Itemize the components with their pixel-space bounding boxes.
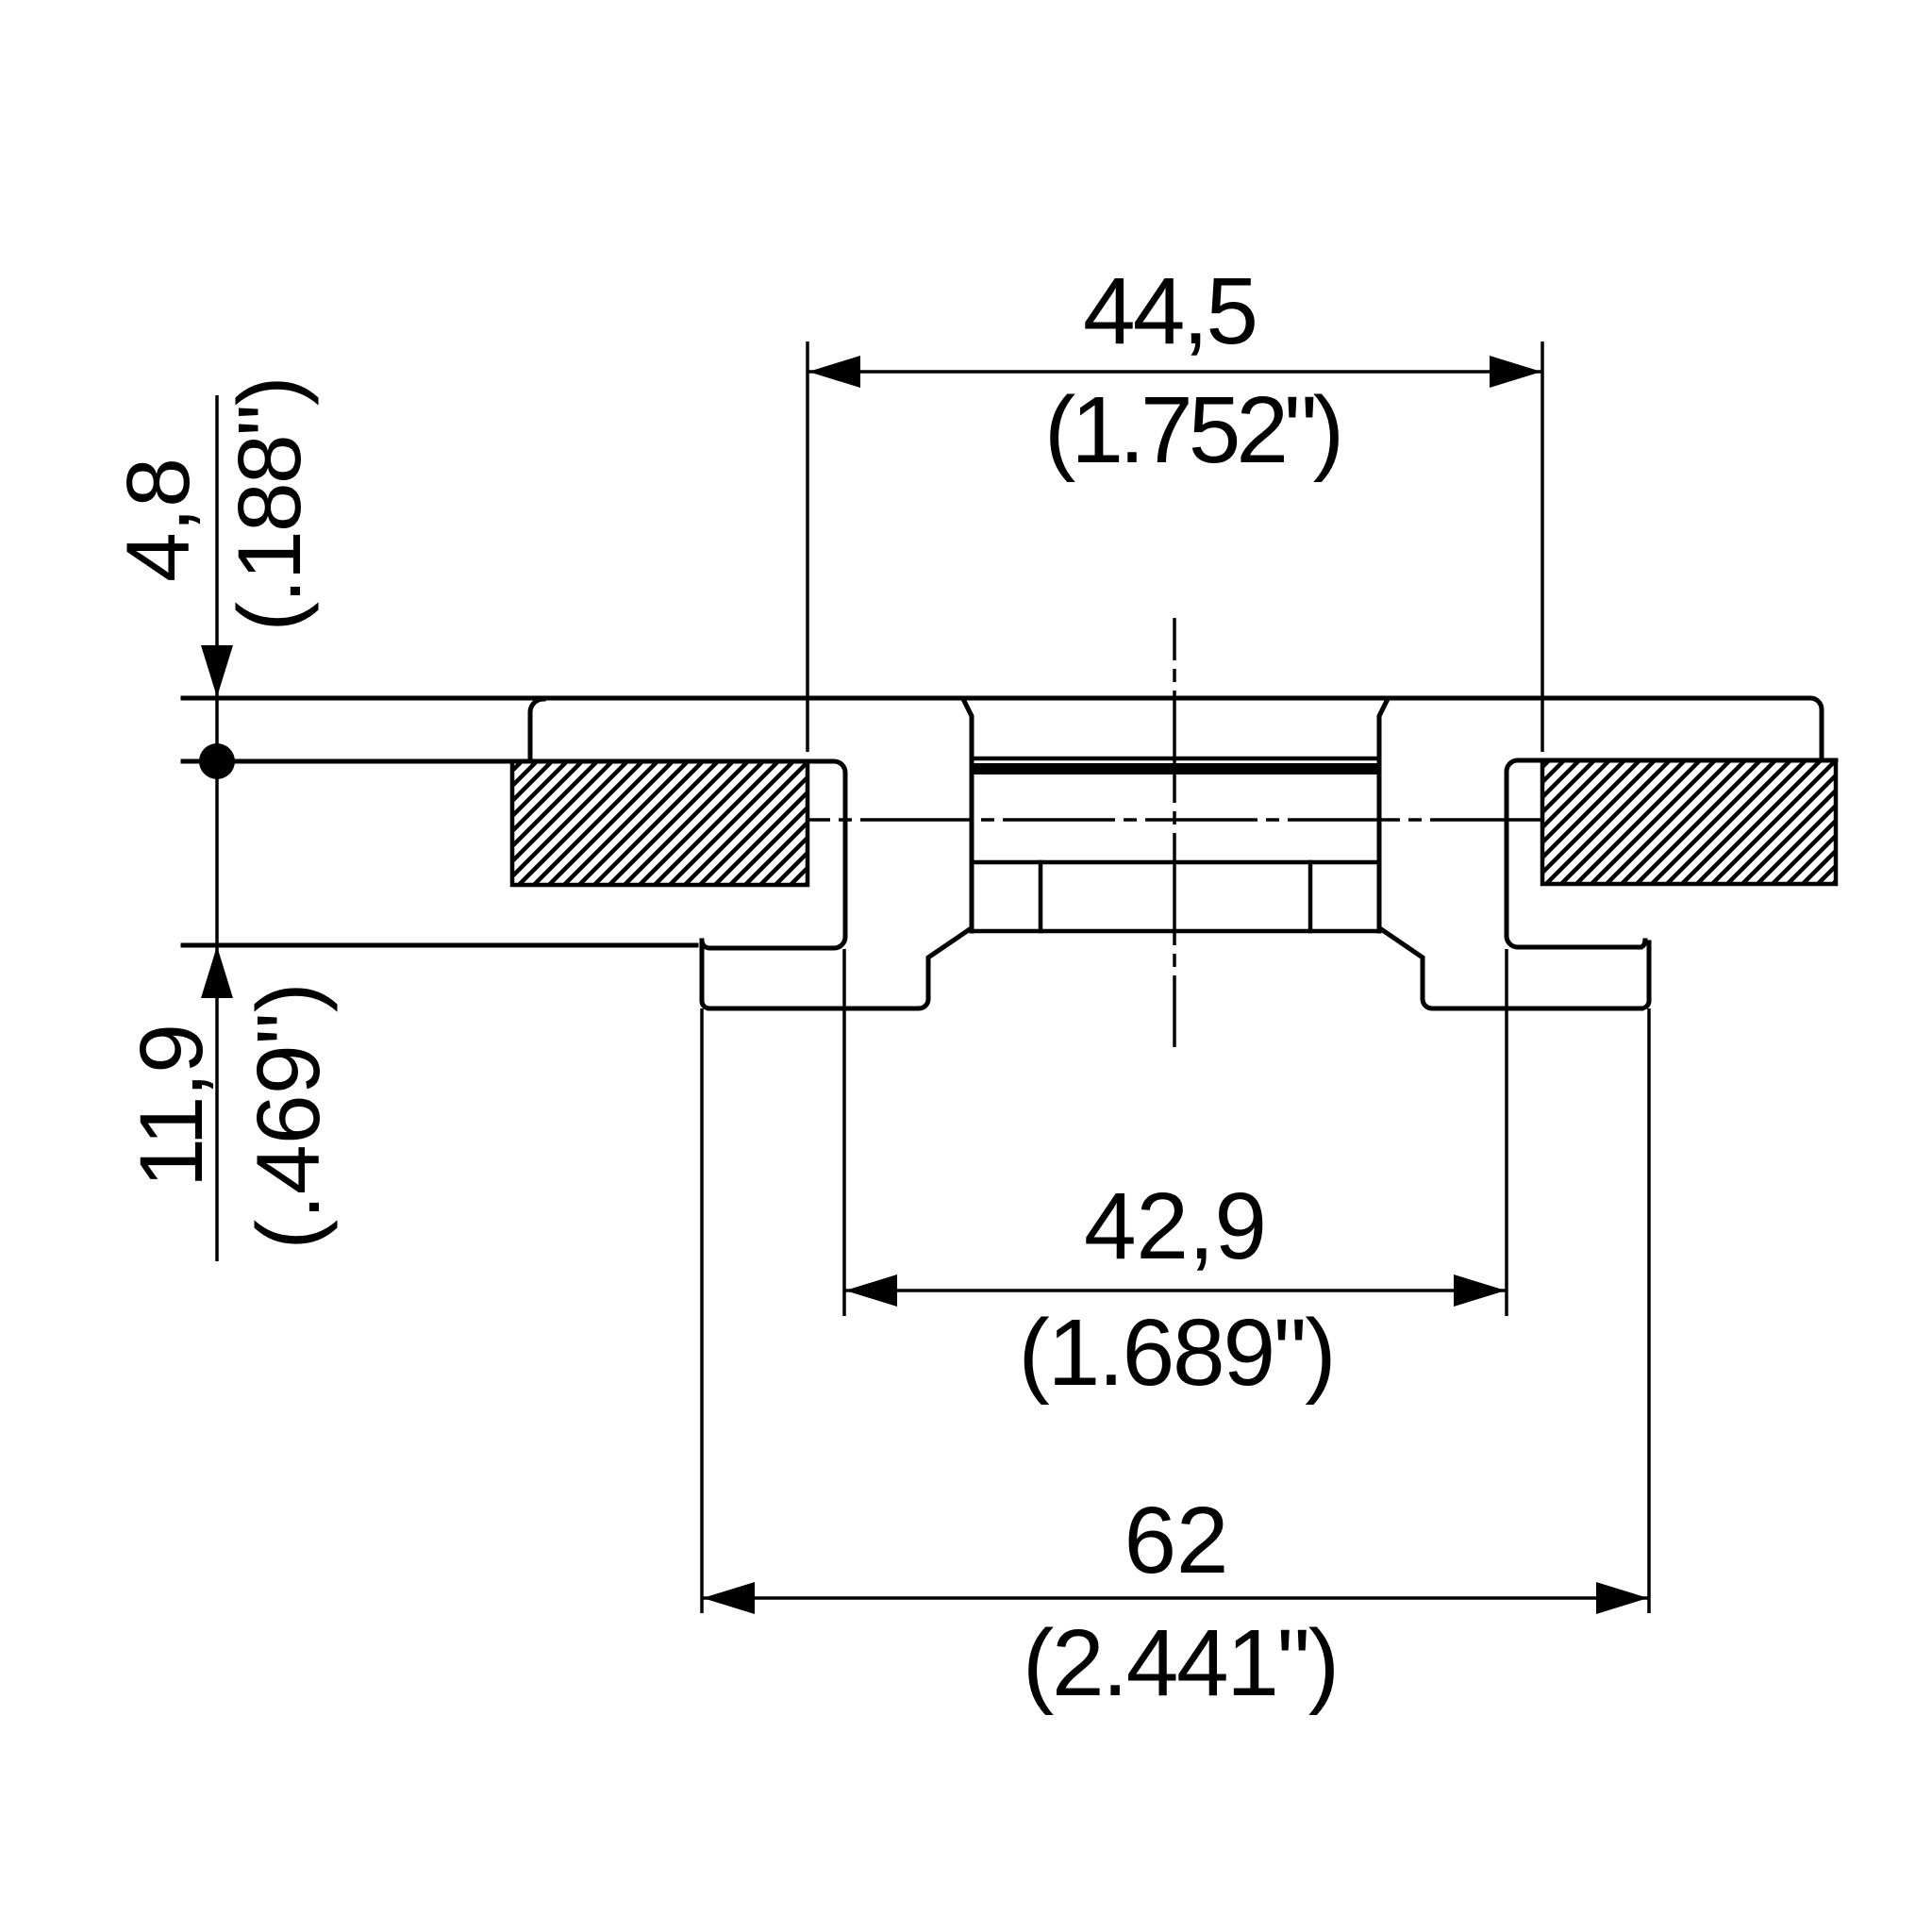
svg-text:(2.441"): (2.441") bbox=[1023, 1610, 1340, 1716]
dimension 42,9 arrow right bbox=[1454, 1274, 1506, 1307]
hub right edge with chamfers bbox=[1379, 699, 1388, 931]
dimension 44,5 arrow right bbox=[1490, 356, 1541, 388]
left cover step edge bbox=[530, 699, 543, 759]
dimension 44,5 extension line left bbox=[806, 341, 809, 752]
svg-text:(1.752"): (1.752") bbox=[1044, 377, 1344, 483]
dimension 42,9 dim line bbox=[845, 1289, 1506, 1292]
vertical centerline bbox=[1173, 618, 1176, 1047]
svg-text:42,9: 42,9 bbox=[1084, 1174, 1267, 1279]
dimension 62 arrow left bbox=[703, 1582, 755, 1614]
svg-text:62: 62 bbox=[1124, 1488, 1229, 1593]
bearing hatch right pattern bbox=[1542, 760, 1836, 884]
dimension 62 extension left bbox=[700, 1008, 704, 1613]
bearing hatch left pattern bbox=[512, 761, 808, 885]
svg-text:(.469"): (.469") bbox=[239, 983, 339, 1250]
left channel bottom and foot bbox=[709, 929, 970, 1008]
dimension 11,9 arrow up bbox=[201, 946, 233, 998]
svg-text:(.188"): (.188") bbox=[220, 376, 320, 632]
top cover line bbox=[183, 698, 1822, 760]
right jog vertical bbox=[1641, 942, 1649, 1008]
svg-text:(1.689"): (1.689") bbox=[1019, 1300, 1337, 1406]
hub recess divider left bbox=[1039, 862, 1043, 931]
left jog vertical bbox=[702, 942, 709, 1008]
dimension 44,5 dim line bbox=[808, 370, 1541, 374]
left shelf line and rotor sleeve outline bbox=[183, 761, 845, 948]
bearing hatch left border bbox=[512, 761, 808, 885]
dimension 44,5 arrow left bbox=[808, 356, 860, 388]
dimension 4,8 / 11,9 vertical dim line bbox=[215, 395, 219, 1261]
horizontal centerline bbox=[809, 818, 1542, 822]
right rotor sleeve outline and shelf line bbox=[1507, 760, 1836, 947]
bearing hatch right border bbox=[1542, 760, 1836, 884]
dimension 42,9 extension right bbox=[1505, 949, 1508, 1316]
left flange bottom line bbox=[183, 943, 696, 948]
reference dot node bbox=[199, 743, 235, 779]
dimension 62 dim line bbox=[703, 1596, 1648, 1600]
hub bottom line bbox=[972, 929, 1379, 934]
svg-text:11,9: 11,9 bbox=[122, 1024, 222, 1188]
hub top shoulder thin line bbox=[972, 757, 1379, 761]
dimension 62 arrow right bbox=[1596, 1582, 1648, 1614]
hub recess divider right bbox=[1308, 862, 1313, 931]
dimension 42,9 extension left bbox=[842, 949, 846, 1316]
dimension 42,9 arrow left bbox=[845, 1274, 897, 1307]
dimension 62 extension right bbox=[1647, 1008, 1651, 1613]
dimension 4,8 arrow down bbox=[201, 645, 233, 697]
hub left edge with chamfers bbox=[963, 699, 972, 931]
dimension 44,5 extension line right bbox=[1541, 341, 1544, 752]
right foot and channel bottom bbox=[1381, 929, 1641, 1008]
svg-text:44,5: 44,5 bbox=[1083, 258, 1258, 364]
hub mid line bbox=[972, 860, 1379, 865]
svg-text:4,8: 4,8 bbox=[108, 458, 208, 582]
code disc thick band bbox=[972, 763, 1379, 774]
